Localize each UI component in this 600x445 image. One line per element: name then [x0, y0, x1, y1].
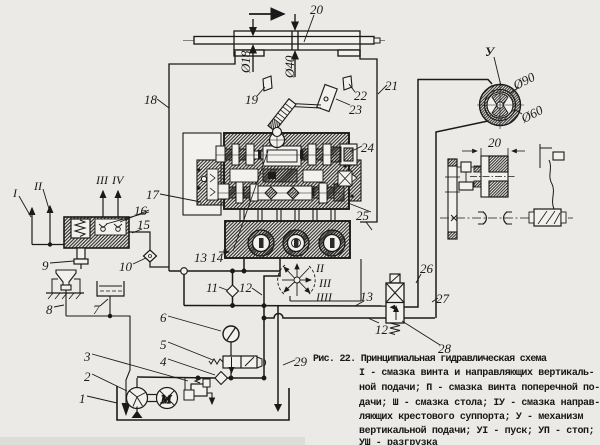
svg-text:II: II	[315, 261, 325, 275]
svg-text:22: 22	[354, 88, 368, 103]
svg-text:7: 7	[93, 302, 100, 317]
svg-text:Ø40: Ø40	[282, 55, 297, 79]
svg-text:УШ - разгрузка: УШ - разгрузка	[359, 438, 438, 445]
svg-text:ляющих крестового суппорта; У: ляющих крестового суппорта; У - механизм	[359, 412, 583, 423]
svg-text:8: 8	[46, 302, 53, 317]
svg-text:18: 18	[144, 92, 158, 107]
svg-text:20: 20	[310, 2, 324, 17]
svg-text:5: 5	[160, 337, 167, 352]
svg-text:I - смазка винта и направляющи: I - смазка винта и направляющих вертикал…	[359, 368, 594, 379]
svg-text:ной подачи; П - смазка винта п: ной подачи; П - смазка винта поперечной …	[359, 382, 600, 394]
svg-text:25: 25	[356, 208, 370, 223]
svg-text:дачи; Ш - смазка стола; IУ - с: дачи; Ш - смазка стола; IУ - смазка напр…	[359, 398, 600, 409]
svg-text:19: 19	[245, 92, 259, 107]
svg-text:21: 21	[385, 78, 398, 93]
svg-text:9: 9	[42, 258, 49, 273]
svg-text:12: 12	[239, 280, 253, 295]
svg-text:III: III	[318, 276, 332, 290]
svg-text:24: 24	[361, 140, 375, 155]
svg-text:Ø18: Ø18	[238, 50, 253, 74]
svg-text:20: 20	[488, 135, 502, 150]
svg-text:10: 10	[119, 259, 133, 274]
svg-text:11: 11	[206, 280, 218, 295]
svg-text:27: 27	[436, 291, 450, 306]
svg-text:26: 26	[420, 261, 434, 276]
svg-text:4: 4	[160, 354, 167, 369]
svg-text:IIII: IIII	[315, 290, 333, 304]
svg-text:IV: IV	[111, 173, 125, 187]
svg-text:16: 16	[134, 203, 148, 218]
svg-text:2: 2	[84, 369, 91, 384]
svg-text:13: 13	[360, 289, 374, 304]
svg-text:III: III	[95, 173, 109, 187]
svg-text:Рис. 22. Принципиальная гидрав: Рис. 22. Принципиальная гидравлическая с…	[313, 354, 547, 365]
svg-text:M: M	[160, 392, 172, 406]
svg-text:3: 3	[83, 349, 91, 364]
svg-text:6: 6	[160, 310, 167, 325]
svg-text:17: 17	[146, 187, 160, 202]
svg-text:15: 15	[137, 217, 151, 232]
svg-text:23: 23	[349, 102, 363, 117]
svg-text:II: II	[33, 179, 43, 193]
svg-text:12: 12	[375, 322, 389, 337]
svg-text:29: 29	[294, 354, 308, 369]
svg-text:1: 1	[79, 391, 86, 406]
svg-text:вертикальной подачи; УI - пуск: вертикальной подачи; УI - пуск; УП - сто…	[359, 425, 594, 437]
svg-text:13 14: 13 14	[194, 250, 224, 265]
